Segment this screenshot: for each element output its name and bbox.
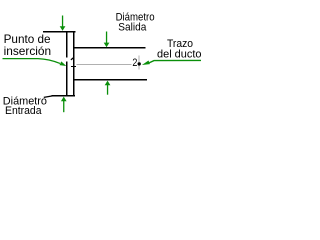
svg-text:Salida: Salida: [118, 22, 147, 34]
duct top line: [74, 47, 145, 48]
flange left vertical (lower part): [66, 61, 68, 96]
node 1 label: [71, 58, 76, 68]
dimension arrow: salida top (down arrow): [104, 32, 110, 48]
dimension arrow: salida bottom (up arrow): [105, 81, 111, 95]
flange right vertical: [73, 31, 75, 96]
svg-text:Entrada: Entrada: [5, 105, 42, 117]
leader from Trazo del ducto label to node 2 (green line with arrowhead): [142, 60, 201, 65]
svg-text:del ducto: del ducto: [157, 49, 202, 61]
node 2 tick (gray): [138, 56, 139, 70]
flange left vertical (upper part): [66, 31, 68, 57]
dimension arrow: entrada top (down arrow): [60, 16, 66, 31]
dimension arrow: entrada bottom (up arrow): [61, 97, 67, 113]
duct centerline (gray): [77, 64, 132, 65]
pointer line from Diámetro Entrada label to flange bottom: [44, 96, 53, 98]
svg-text:inserción: inserción: [4, 44, 52, 58]
leader from inserción label to node 1 (green curve with arrowhead): [3, 59, 67, 66]
flange bottom cap (bottom extension line): [51, 95, 75, 96]
node 2 dot: [138, 62, 141, 65]
pointer line from Punto de inserción label to flange top (top extension line): [43, 31, 76, 32]
svg-text:2: 2: [132, 57, 137, 69]
duct bottom line: [74, 79, 147, 80]
